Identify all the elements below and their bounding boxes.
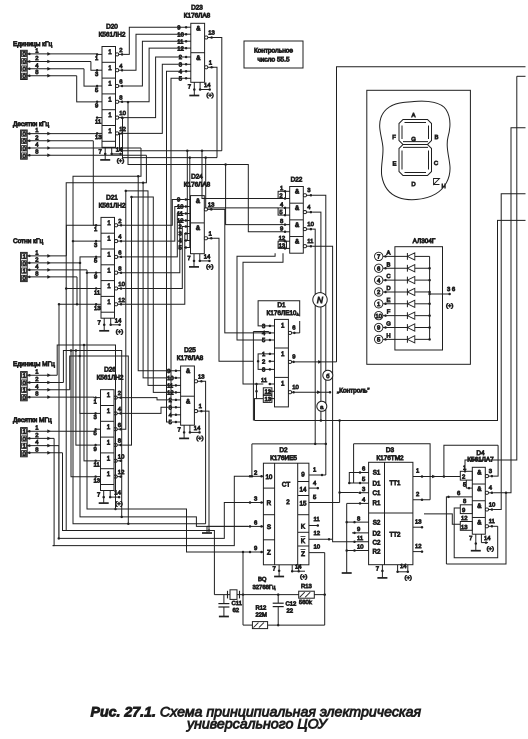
D24 pin 14 (+) wire: [199, 254, 201, 261]
svg-text:1: 1: [377, 302, 380, 308]
D20 input pin 3: [97, 69, 103, 71]
wire D20 out8 to D23 in12: [124, 48, 185, 102]
D26 output pin 6: [114, 428, 117, 431]
svg-text:R2: R2: [373, 549, 381, 556]
svg-text:12: 12: [167, 391, 174, 397]
D3 input pin 3: [358, 492, 369, 494]
svg-text:D1: D1: [373, 480, 381, 487]
D23 output pin 13: [205, 36, 208, 39]
svg-text:(+): (+): [116, 329, 123, 335]
wire hundreds-kHz bit2 jog to D21 pin5: [80, 257, 96, 263]
wire units-MHz bit2 riser over to loop: [63, 351, 121, 517]
D26 output pin 12: [114, 475, 117, 478]
tens-MHz pin wire: [27, 430, 95, 432]
wire R13 right to bottom rail: [324, 595, 326, 626]
tens-MHz pin wire: [27, 452, 62, 454]
D1 output pin 9 wire to top-right: [288, 360, 291, 363]
svg-text:1: 1: [108, 49, 112, 56]
wire D24 out1 down to D1 pin2: [213, 238, 253, 361]
D25 input pin 2: [174, 399, 180, 401]
svg-text:10: 10: [307, 222, 314, 228]
svg-text:14: 14: [400, 564, 407, 570]
tens-kHz pin wire: [27, 140, 93, 142]
wire D22 bottom run to D1 pin11: [243, 253, 283, 384]
svg-text:3 6: 3 6: [447, 287, 456, 293]
svg-text:13: 13: [198, 374, 205, 380]
svg-text:1: 1: [35, 250, 38, 256]
svg-text:7: 7: [377, 255, 380, 261]
D21 input pin 1: [96, 224, 102, 226]
D26 output pin 2: [114, 396, 117, 399]
svg-text:14: 14: [295, 565, 302, 571]
wire vertical right of D21 b: [122, 197, 131, 445]
svg-text:9: 9: [462, 508, 465, 514]
wire D4 pins 12-13 feed: [424, 514, 460, 524]
D4 output pin 4: [485, 491, 488, 494]
D26 output pin 10: [114, 459, 117, 462]
svg-text:10: 10: [118, 282, 125, 288]
svg-text:1: 1: [262, 352, 265, 358]
D3 input pin 6: [358, 472, 369, 474]
LED common output wire to (+): [430, 293, 450, 295]
svg-text:К176ИЕ5: К176ИЕ5: [270, 455, 297, 462]
IC D21 K561LN2 body: [101, 217, 115, 318]
D3 input pin 5: [358, 482, 369, 484]
D26 input pin 9: [95, 444, 101, 446]
svg-text:H: H: [442, 184, 446, 190]
svg-text:S1: S1: [373, 470, 381, 477]
svg-text:К176ЛЕ10: К176ЛЕ10: [267, 310, 297, 317]
D2 output pin 10 wire down to oscillator: [309, 552, 325, 554]
svg-text:10: 10: [357, 545, 364, 551]
wire units-kHz bit2 jog to D20 pin3: [91, 62, 97, 71]
svg-text:1: 1: [94, 227, 97, 233]
D24 input pin 2: [184, 226, 190, 228]
D20 input pin 13: [97, 132, 103, 134]
D20 pin 7 wire: [104, 147, 106, 154]
svg-text:1: 1: [107, 424, 111, 431]
svg-text:B: B: [387, 262, 391, 268]
svg-text:К561ЛН2: К561ЛН2: [99, 203, 126, 210]
wire D20 out6 to D23 in11: [124, 41, 185, 86]
svg-text:D: D: [411, 182, 415, 188]
wire D22 out10 down to D2 top loop: [313, 229, 316, 444]
svg-text:1: 1: [22, 374, 25, 380]
wire D21 out6 to D24 in11: [123, 214, 185, 257]
svg-text:1: 1: [22, 254, 25, 260]
svg-text:9: 9: [177, 198, 180, 204]
wire D24 out13 down to D1 pin4: [213, 209, 269, 333]
svg-text:62: 62: [233, 608, 240, 614]
svg-text:14: 14: [204, 254, 211, 260]
svg-text:D3: D3: [386, 447, 395, 454]
hundreds-kHz pin wire: [27, 255, 66, 257]
svg-text:1: 1: [108, 112, 112, 119]
svg-text:D26: D26: [104, 367, 116, 374]
D20 ground symbol: [100, 159, 110, 161]
D23 input pin 5: [185, 77, 191, 79]
svg-text:TT2: TT2: [390, 532, 402, 539]
wire tens-MHz bit1 jog to D26 pin5: [94, 429, 96, 431]
svg-text:9: 9: [357, 527, 360, 533]
D4 input strap pins 8-9: [460, 505, 472, 514]
D26 input pin 11: [95, 460, 101, 462]
svg-text:9: 9: [292, 355, 295, 361]
IC D26 K561LN2 body: [101, 390, 115, 491]
wire D22 out3 down to D2 pin1 loop: [313, 195, 326, 475]
svg-text:1: 1: [281, 380, 285, 387]
D2 output pin 4 stub: [309, 487, 318, 489]
svg-text:11: 11: [489, 519, 495, 525]
svg-text:1: 1: [35, 426, 38, 432]
svg-text:9: 9: [377, 326, 380, 332]
D21 input pin 3: [96, 240, 102, 242]
wire units-MHz bit8 to D26 pin1: [94, 396, 95, 399]
svg-text:1: 1: [107, 392, 111, 399]
D3 pin 7 ground: [381, 565, 383, 571]
LED segment D pin 2: [375, 288, 383, 296]
svg-text:560k: 560k: [299, 600, 312, 606]
LED diode D: [406, 289, 408, 296]
svg-text:1: 1: [108, 81, 112, 88]
wire D3 out1 up to D4 top loop: [444, 445, 498, 476]
svg-text:A: A: [412, 113, 416, 119]
LED array box: [395, 247, 443, 350]
svg-text:АЛ304Г: АЛ304Г: [413, 238, 436, 245]
svg-text:R12: R12: [256, 606, 267, 612]
D20 output pin 12: [116, 132, 119, 135]
svg-text:12: 12: [118, 298, 125, 304]
svg-text:7: 7: [178, 428, 181, 434]
svg-text:13: 13: [279, 244, 286, 250]
svg-text:1: 1: [281, 351, 285, 358]
IC D1 body: [275, 319, 289, 407]
D23 input pin 3: [185, 63, 191, 65]
svg-text:Десятки МГц: Десятки МГц: [13, 417, 52, 424]
D1 gate2 input side loop: [258, 354, 268, 370]
svg-text:9: 9: [254, 546, 257, 552]
wire tens-kHz bit2 down to D21 pin1: [93, 141, 95, 226]
svg-text:1: 1: [209, 231, 212, 237]
D25 input pin 4: [174, 414, 180, 416]
left bundle loop row 6: [53, 476, 248, 545]
svg-text:9: 9: [95, 104, 98, 110]
D21 input pin 11: [96, 288, 102, 290]
svg-text:11: 11: [357, 536, 363, 542]
D21 pin 7 wire: [103, 318, 105, 325]
svg-text:1: 1: [107, 220, 111, 227]
D22 output pin 3: [303, 194, 306, 197]
svg-text:10: 10: [119, 111, 126, 117]
wire D1 left vertical: [252, 332, 254, 421]
D25 input pin 3: [174, 406, 180, 408]
D4 pin 7 ground: [475, 534, 477, 543]
D1 input jumper box pin 13: [263, 395, 272, 402]
svg-text:D22: D22: [291, 177, 303, 184]
svg-text:N: N: [317, 295, 324, 305]
D22 input jumper box pins 1-2: [278, 191, 285, 198]
D25 input pin 5: [174, 421, 180, 423]
wire tens-MHz bit8 down joining loop row4: [63, 453, 67, 531]
capacitor C11: [223, 595, 225, 604]
tens-MHz pin wire: [27, 437, 54, 439]
svg-text:1: 1: [107, 471, 111, 478]
D3 S1 loop to D1 row: [349, 473, 358, 484]
wire D26 out4 to D25 pin3: [122, 407, 174, 413]
svg-text:G: G: [386, 322, 391, 328]
svg-text:1: 1: [107, 283, 111, 290]
D20 output pin 8: [116, 100, 119, 103]
svg-text:B: B: [435, 135, 439, 141]
D1 input jumper box pin 12: [263, 388, 272, 395]
svg-text:12: 12: [461, 516, 468, 522]
svg-text:BQ: BQ: [258, 577, 267, 583]
svg-text:C11: C11: [232, 601, 242, 607]
svg-text:1: 1: [22, 388, 25, 394]
D23 input pin 2: [185, 56, 191, 58]
LED segment G pin 9: [375, 323, 383, 331]
D1 gate1 feedback loop: [258, 301, 300, 326]
svg-text:13: 13: [94, 478, 101, 484]
D21 pin 14 (+) wire: [110, 318, 112, 325]
D2 input pin 2: [248, 475, 263, 477]
wire riser to D25 pin9: [138, 176, 174, 371]
wire D21 out2 to D24 in9: [123, 200, 185, 226]
D24 input pin 4: [184, 240, 190, 242]
left bundle loop row 2: [80, 263, 248, 527]
svg-text:2: 2: [462, 475, 465, 481]
seven-segment digit lower: [399, 145, 432, 176]
IC D24 body: [191, 196, 205, 254]
svg-text:2: 2: [254, 470, 257, 476]
IC D25 body: [181, 366, 195, 425]
svg-text:1: 1: [35, 370, 38, 376]
wire D20 out10 to D23 pin2: [124, 57, 185, 118]
D1 input pin 4: [269, 332, 275, 334]
D2 output pin 1 wire up: [309, 474, 326, 476]
svg-text:R1: R1: [373, 500, 381, 507]
svg-text:D25: D25: [184, 347, 196, 354]
D21 output pin 12: [115, 303, 118, 306]
D26 output pin 4: [114, 412, 117, 415]
svg-text:TT1: TT1: [390, 480, 402, 487]
svg-text:(+): (+): [206, 93, 213, 99]
D21 ground symbol: [99, 330, 109, 332]
D21 input pin 13: [96, 303, 102, 305]
D3 output pin 12 stub: [413, 551, 422, 553]
display panel box: [367, 90, 471, 364]
D20 input pin 1: [97, 53, 103, 55]
svg-text:2: 2: [35, 135, 38, 141]
svg-text:1: 1: [107, 236, 111, 243]
wire feed D26 pin3: [80, 356, 95, 413]
svg-text:S: S: [267, 524, 271, 531]
svg-text:1: 1: [313, 468, 316, 474]
D20 output pin 4: [116, 69, 119, 72]
D20 output pin 10: [116, 116, 119, 119]
svg-text:К561ЛН2: К561ЛН2: [97, 375, 124, 382]
wire riser to D25 pin10: [143, 183, 174, 378]
wire W-loop vertical to D24 pin5: [184, 158, 190, 248]
svg-text:Единицы МГц: Единицы МГц: [13, 361, 55, 368]
svg-text:Контрольное: Контрольное: [254, 48, 293, 55]
D3 input pin 10: [352, 550, 369, 552]
D3 input pin 9: [352, 532, 369, 534]
svg-text:2: 2: [279, 193, 282, 199]
svg-text:1: 1: [108, 96, 112, 103]
svg-text:2: 2: [286, 499, 290, 506]
wire D1 pin13 from big loop: [255, 399, 257, 421]
svg-text:(+): (+): [196, 436, 203, 442]
node circle a: [317, 401, 327, 411]
svg-text:13: 13: [415, 519, 422, 525]
D22 output pin 11: [303, 245, 306, 248]
wire feed D26 pin13: [71, 351, 95, 477]
svg-text:7: 7: [97, 493, 100, 499]
svg-text:D1: D1: [277, 302, 286, 309]
units-MHz pin wire: [27, 396, 94, 398]
svg-text:10: 10: [375, 314, 382, 320]
wire D20 out12 to D23 pin3: [124, 64, 185, 133]
svg-text:11: 11: [261, 378, 267, 384]
D23 pin 14 (+) wire: [199, 82, 201, 89]
wire tens-kHz bit4 staircase to D21 pin3: [73, 148, 141, 241]
IC D3 body: [369, 462, 413, 564]
wire D4 out4 loop to pin6: [446, 493, 506, 564]
D1 gate3 left wires: [257, 384, 264, 399]
svg-text:Z: Z: [301, 551, 305, 558]
wire D4 out11 to bottom loop: [493, 525, 497, 527]
D26 ground symbol: [99, 502, 109, 504]
seven-segment digit upper: [399, 120, 432, 145]
wire D22 out4 down to big loop: [313, 212, 321, 420]
wire tens-kHz bit8 staircase to D21 pin11: [66, 155, 146, 288]
wire W-loop vertical to D24 pin4: [184, 151, 187, 241]
svg-text:9: 9: [301, 472, 305, 479]
svg-text:F: F: [392, 135, 396, 141]
svg-text:1: 1: [94, 399, 97, 405]
D26 input pin 3: [95, 412, 101, 414]
svg-text:32768Гц: 32768Гц: [253, 585, 277, 591]
units-MHz pin wire: [27, 374, 57, 376]
wire hundreds-kHz bit4 jog to D21 pin9: [87, 270, 96, 273]
svg-text:R: R: [267, 500, 272, 507]
svg-text:К176ЛА8: К176ЛА8: [177, 355, 204, 362]
D25 output pin 1: [194, 410, 197, 413]
svg-text:S2: S2: [373, 520, 381, 527]
D25 pin 7 wire and ground: [183, 425, 185, 432]
left bundle loop row 3: [73, 241, 206, 524]
wire loop from D20 out12 to D22 pin2: [120, 134, 222, 151]
LED segment E pin 1: [375, 300, 383, 308]
svg-text:F: F: [387, 310, 391, 316]
svg-text:9: 9: [167, 369, 170, 375]
svg-text:К176ТМ2: К176ТМ2: [376, 455, 404, 462]
svg-text:C: C: [434, 161, 439, 167]
svg-text:14: 14: [115, 318, 122, 324]
wire D20 out2 to D23 in9: [124, 27, 185, 54]
svg-text:11: 11: [167, 384, 173, 390]
svg-text:2: 2: [169, 398, 172, 404]
svg-text:10: 10: [314, 545, 321, 551]
D23 input pin 10: [185, 33, 191, 35]
LED diode G: [406, 324, 408, 331]
svg-text:11: 11: [94, 290, 100, 296]
svg-text:Единицы кГц: Единицы кГц: [13, 41, 53, 48]
wire D2 pin5 to D3 C1: [340, 493, 358, 503]
D20 input pin 11: [97, 117, 103, 119]
D23 input pin 11: [185, 40, 191, 42]
svg-text:10: 10: [177, 205, 184, 211]
D23 output pin 1: [205, 66, 208, 69]
svg-text:12: 12: [118, 470, 125, 476]
wire D22 out11 down to D2 pin12: [313, 246, 333, 539]
D1 output pin 6: [288, 331, 291, 334]
D26 input pin 5: [95, 428, 101, 430]
wire D1 out9 vertical up to display top wire: [337, 67, 526, 362]
svg-text:11: 11: [177, 212, 183, 218]
svg-text:1: 1: [107, 252, 111, 259]
D1 input pin 8: [269, 368, 275, 370]
wire vertical from big loop to D3 C1 node: [339, 421, 341, 493]
svg-text:10: 10: [167, 376, 174, 382]
LED segment H pin 5: [375, 335, 383, 343]
D20 pin 14 (+) wire: [111, 147, 113, 154]
D4 input pin 6 fed from out4 loop: [446, 497, 472, 564]
svg-text:14: 14: [204, 83, 211, 89]
svg-text:К561ЛН2: К561ЛН2: [99, 32, 126, 39]
svg-text:2: 2: [416, 492, 419, 498]
D24 input pin 10: [184, 206, 190, 208]
control number note box: [244, 41, 303, 68]
D23 input pin 9: [185, 26, 191, 28]
wire D4 out10 to right edge: [493, 194, 525, 510]
svg-text:D20: D20: [106, 24, 118, 31]
D2 output pin 11 stub: [309, 525, 318, 527]
D1 input pin 5: [269, 339, 275, 341]
IC D23 body: [191, 23, 205, 82]
svg-text:1: 1: [95, 56, 98, 62]
svg-text:22М: 22М: [256, 613, 268, 619]
D22 output pin 10: [303, 228, 306, 231]
IC D20 K561LN2 body: [102, 47, 116, 148]
wire D25 out13 down to bundle row: [203, 381, 206, 523]
svg-text:E: E: [387, 298, 391, 304]
svg-text:11: 11: [307, 239, 313, 245]
svg-text:1: 1: [107, 299, 111, 306]
svg-text:1: 1: [108, 65, 112, 72]
svg-text:11: 11: [177, 39, 183, 45]
wire hundreds-kHz bit1 up to D21 pin1: [66, 225, 95, 256]
tens-kHz pin wire: [27, 154, 146, 156]
segment H decimal point mark: [434, 179, 440, 185]
svg-text:R13: R13: [301, 584, 313, 590]
D26 input pin 13: [95, 476, 101, 478]
wire D26 out2 to D25 pin2: [122, 398, 174, 400]
D26 output pin 8: [114, 443, 117, 446]
D24 pin 7 wire and ground: [193, 254, 195, 261]
svg-text:2: 2: [35, 257, 38, 263]
wire long vertical into D23 pin4: [167, 71, 185, 422]
D25 pin 14 (+) wire: [189, 425, 191, 432]
units-kHz pin wire: [27, 53, 97, 55]
D20 input pin 9: [97, 101, 103, 103]
wire units-kHz bit4 jog to D20 pin5: [84, 69, 97, 86]
D4 output pin 3: [485, 475, 488, 478]
svg-text:(+): (+): [117, 159, 124, 165]
LED diode B: [406, 265, 408, 272]
IC D4 body: [472, 467, 485, 534]
